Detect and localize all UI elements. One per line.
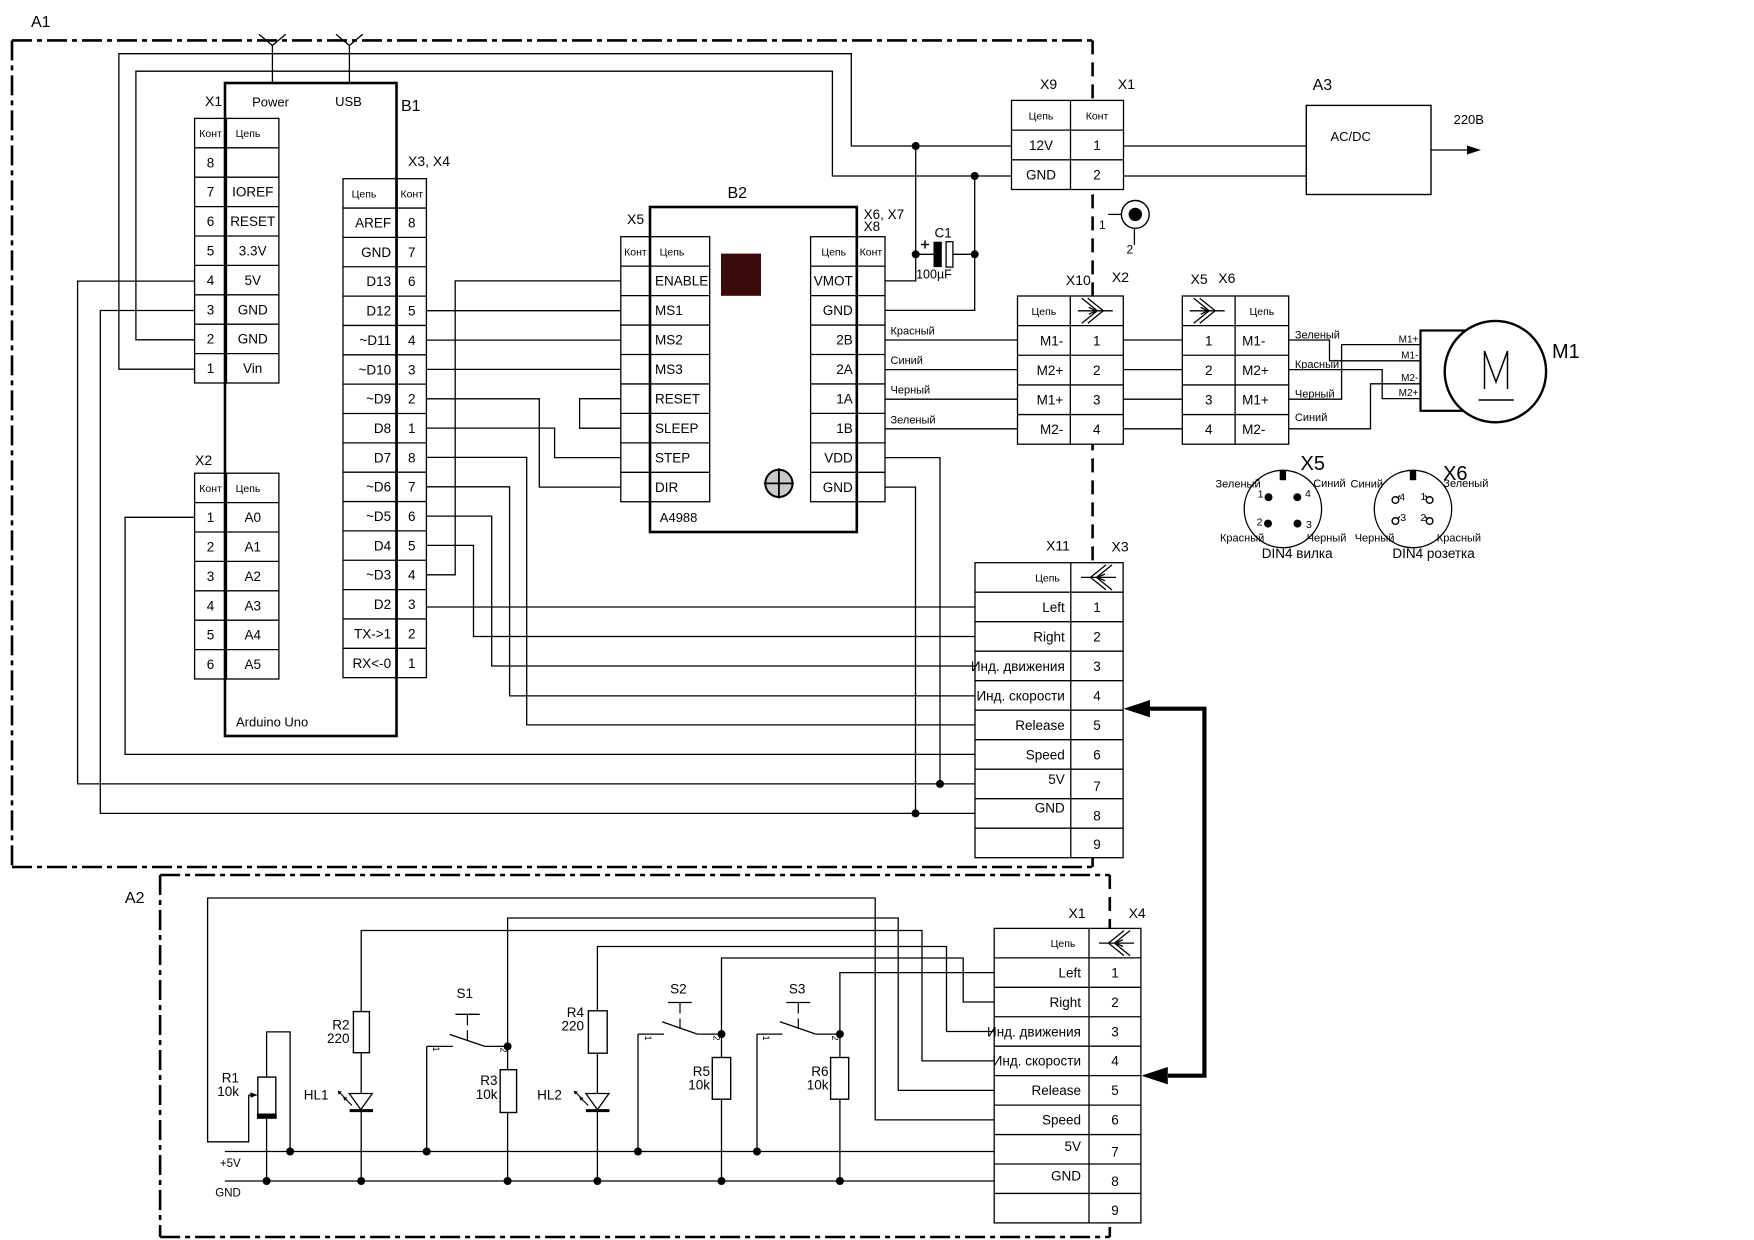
svg-text:6: 6 (207, 214, 215, 229)
svg-text:X4: X4 (1129, 905, 1146, 921)
svg-text:~D9: ~D9 (366, 392, 391, 407)
svg-text:Конт: Конт (199, 483, 222, 495)
svg-text:M2+: M2+ (1037, 363, 1064, 378)
resistor R5 (712, 1058, 730, 1100)
svg-text:Инд. движения: Инд. движения (971, 659, 1065, 674)
svg-text:D13: D13 (366, 274, 391, 289)
resistor R2 (353, 1012, 369, 1053)
svg-text:8: 8 (408, 216, 416, 231)
svg-text:X1: X1 (1069, 905, 1086, 921)
svg-text:7: 7 (207, 185, 215, 200)
svg-text:X2: X2 (1112, 269, 1129, 285)
svg-text:Черный: Черный (1295, 389, 1335, 401)
svg-text:7: 7 (1093, 779, 1101, 794)
svg-text:3: 3 (207, 569, 215, 584)
svg-text:1: 1 (1093, 600, 1101, 615)
svg-text:M1-: M1- (1040, 333, 1063, 348)
svg-text:3: 3 (408, 362, 416, 377)
svg-text:Зеленый: Зеленый (891, 415, 936, 427)
svg-text:VDD: VDD (824, 450, 853, 465)
svg-text:Синий: Синий (1313, 478, 1345, 490)
svg-text:9: 9 (1093, 837, 1101, 852)
svg-text:5: 5 (408, 538, 416, 553)
svg-text:1: 1 (1093, 138, 1101, 153)
svg-text:Цепь: Цепь (660, 246, 685, 258)
svg-text:Синий: Синий (1295, 412, 1327, 424)
antenna symbol Power external (271, 46, 273, 84)
wire X2 pin3 to X5 pin3 (1123, 398, 1182, 400)
svg-text:Инд. скорости: Инд. скорости (976, 688, 1064, 703)
svg-text:1: 1 (1093, 333, 1101, 348)
svg-text:2: 2 (207, 332, 215, 347)
svg-text:1: 1 (643, 1035, 653, 1040)
svg-text:Инд. движения: Инд. движения (987, 1024, 1081, 1039)
svg-text:Черный: Черный (1307, 533, 1347, 545)
svg-text:C1: C1 (935, 226, 952, 241)
svg-text:DIN4 розетка: DIN4 розетка (1392, 546, 1475, 561)
wire blue M2- to motor (1289, 384, 1421, 429)
svg-text:Цепь: Цепь (236, 128, 261, 140)
svg-text:GND: GND (1035, 801, 1065, 816)
svg-text:M1: M1 (1552, 341, 1580, 363)
wire X2 pin1 to X5 pin1 (1123, 339, 1182, 341)
svg-text:D2: D2 (374, 597, 391, 612)
wire R4 to HL2 (596, 1053, 598, 1093)
motor M1 (1421, 331, 1467, 411)
svg-text:4: 4 (1111, 1054, 1119, 1069)
wire Vin to X9 12V (119, 54, 1012, 370)
svg-text:5: 5 (1111, 1083, 1119, 1098)
svg-text:Цепь: Цепь (821, 246, 846, 258)
wire R1 top to +5V (267, 1032, 291, 1152)
svg-text:USB: USB (335, 94, 362, 109)
svg-text:AREF: AREF (355, 216, 391, 231)
svg-text:7: 7 (408, 245, 416, 260)
converter A3 AC/DC (1306, 105, 1431, 194)
svg-text:Цепь: Цепь (236, 483, 261, 495)
svg-text:Цепь: Цепь (1032, 306, 1057, 318)
svg-text:6: 6 (1093, 747, 1101, 762)
svg-text:A0: A0 (244, 510, 261, 525)
svg-text:Конт: Конт (624, 246, 647, 258)
svg-text:IOREF: IOREF (232, 185, 273, 200)
svg-text:X5: X5 (627, 211, 644, 227)
svg-text:M2+: M2+ (1242, 363, 1269, 378)
wire VMOT to 12V rail (885, 146, 916, 281)
svg-text:220В: 220В (1454, 112, 1484, 127)
wire S1 pin2 to R3 (507, 1046, 509, 1069)
wire S1 pin1 to +5V (426, 1046, 428, 1151)
wire S2 pin1 to +5V (637, 1034, 639, 1151)
svg-text:M1-: M1- (1242, 333, 1265, 348)
svg-text:1: 1 (207, 361, 215, 376)
svg-text:X3: X3 (1112, 538, 1129, 554)
svg-text:D12: D12 (366, 304, 391, 319)
svg-text:DIR: DIR (655, 480, 679, 495)
wire GND net to X11 pin8 (100, 311, 975, 814)
svg-text:Красный: Красный (891, 326, 935, 338)
svg-text:5: 5 (408, 304, 416, 319)
wire RESET-SLEEP jumper (580, 399, 621, 429)
svg-text:GND: GND (1051, 1169, 1081, 1184)
wire B2 GND to X9 GND rail (885, 176, 975, 310)
wire B2 GND bottom to GND net (885, 487, 916, 813)
svg-text:R3: R3 (480, 1073, 497, 1088)
wire VDD to 5V net (885, 458, 940, 784)
svg-text:2B: 2B (836, 333, 853, 348)
svg-text:10k: 10k (217, 1084, 239, 1099)
svg-text:A1: A1 (244, 540, 261, 555)
svg-text:RESET: RESET (230, 214, 275, 229)
+5V rail (225, 1151, 994, 1153)
wire D10 to MS3 (426, 368, 620, 370)
LED HL2 (586, 1094, 609, 1110)
svg-text:Инд. скорости: Инд. скорости (993, 1054, 1081, 1069)
svg-text:M1+: M1+ (1242, 393, 1269, 408)
svg-text:10k: 10k (688, 1078, 710, 1093)
wire S3 pin1 to +5V (756, 1034, 758, 1151)
svg-text:X10: X10 (1066, 272, 1091, 288)
svg-text:6: 6 (1111, 1113, 1119, 1128)
wire 5V net to X11 pin7 (78, 281, 975, 784)
svg-text:GND: GND (361, 245, 391, 260)
svg-text:S3: S3 (789, 982, 806, 997)
svg-text:8: 8 (1093, 809, 1101, 824)
svg-text:+5V: +5V (220, 1158, 241, 1170)
svg-text:X1: X1 (205, 93, 222, 109)
wire black M1+ to motor (1289, 345, 1421, 400)
svg-text:Зеленый: Зеленый (1443, 478, 1488, 490)
svg-text:A4988: A4988 (660, 510, 698, 525)
svg-text:Красный: Красный (1295, 359, 1339, 371)
svg-text:X6: X6 (1218, 270, 1235, 286)
svg-text:X5: X5 (1191, 271, 1208, 287)
svg-text:Arduino Uno: Arduino Uno (236, 715, 308, 730)
svg-text:2: 2 (1205, 363, 1213, 378)
svg-text:2: 2 (1093, 629, 1101, 644)
svg-text:X11: X11 (1046, 538, 1070, 554)
svg-text:X1: X1 (1118, 76, 1135, 92)
block A1 frame (12, 39, 1093, 42)
wire S2 pin2 to R5 (721, 1034, 723, 1057)
svg-text:6: 6 (207, 657, 215, 672)
wire X2 pin2 to X5 pin2 (1123, 369, 1182, 371)
svg-text:8: 8 (1111, 1174, 1119, 1189)
svg-text:X5: X5 (1301, 453, 1325, 475)
svg-text:Release: Release (1031, 1083, 1081, 1098)
svg-text:4: 4 (408, 333, 416, 348)
wire green M1- to motor (1289, 340, 1421, 361)
wire R6 to GND (839, 1099, 841, 1181)
svg-text:MS3: MS3 (655, 362, 683, 377)
svg-text:GND: GND (215, 1188, 241, 1200)
svg-text:S2: S2 (670, 982, 687, 997)
svg-text:2: 2 (1093, 363, 1101, 378)
svg-text:D7: D7 (374, 450, 391, 465)
svg-text:A2: A2 (244, 569, 261, 584)
wire D8 to STEP (426, 428, 620, 458)
svg-text:~D10: ~D10 (358, 362, 391, 377)
wire D6 to X11 pin4 (426, 487, 975, 696)
wire D11 to MS2 (426, 339, 620, 341)
wire D12 to MS1 (426, 310, 620, 312)
wire 2A to X10 M2+ (885, 369, 1018, 371)
svg-text:3: 3 (1306, 519, 1312, 531)
wire S2 pin2 to X1 Right (722, 958, 995, 1034)
svg-text:9: 9 (1111, 1203, 1119, 1218)
svg-text:3: 3 (207, 302, 215, 317)
svg-text:5V: 5V (1048, 772, 1065, 787)
svg-text:Черный: Черный (891, 385, 931, 397)
svg-text:~D11: ~D11 (359, 333, 391, 348)
svg-text:4: 4 (408, 568, 416, 583)
wire S3 pin2 to X1 Left (840, 973, 994, 1035)
wire D5 to X11 pin3 (426, 516, 975, 666)
svg-text:2: 2 (1257, 517, 1263, 529)
svg-text:Зеленый: Зеленый (1216, 479, 1261, 491)
svg-text:1: 1 (431, 1046, 441, 1051)
svg-text:2: 2 (1093, 167, 1101, 182)
svg-text:1: 1 (1420, 491, 1426, 503)
svg-text:2: 2 (408, 392, 416, 407)
svg-text:3: 3 (1111, 1024, 1119, 1039)
svg-text:TX->1: TX->1 (354, 626, 391, 641)
svg-text:2: 2 (1127, 243, 1134, 257)
capacitor C1 (934, 242, 942, 267)
svg-text:A1: A1 (31, 14, 51, 31)
GND rail (225, 1180, 994, 1182)
wire C1 right branch (953, 253, 975, 255)
svg-text:4: 4 (207, 273, 215, 288)
wire X2 pin4 to X5 pin4 (1123, 428, 1182, 430)
svg-text:4: 4 (1399, 492, 1405, 504)
svg-text:6: 6 (408, 509, 416, 524)
svg-text:GND: GND (238, 302, 268, 317)
wire S3 pin2 to R6 (839, 1034, 841, 1057)
svg-text:3.3V: 3.3V (239, 244, 267, 259)
svg-text:HL2: HL2 (537, 1088, 562, 1103)
wire D7 to X11 Release (426, 457, 975, 725)
svg-text:1A: 1A (836, 391, 853, 406)
wire 2B to X10 M1- (885, 339, 1018, 341)
svg-text:100µF: 100µF (916, 268, 952, 282)
potentiometer R1 (258, 1077, 276, 1114)
chip body dark square (721, 254, 761, 296)
svg-text:M1+: M1+ (1037, 393, 1064, 408)
wire R5 to GND (721, 1099, 723, 1181)
svg-text:VMOT: VMOT (814, 274, 853, 289)
svg-text:8: 8 (408, 450, 416, 465)
wire R3 to GND (507, 1113, 509, 1182)
svg-text:M2-: M2- (1242, 422, 1265, 437)
svg-text:S1: S1 (457, 986, 474, 1001)
svg-text:AC/DC: AC/DC (1331, 129, 1371, 144)
svg-text:SLEEP: SLEEP (655, 421, 699, 436)
svg-text:2: 2 (408, 626, 416, 641)
svg-text:ENABLE: ENABLE (655, 274, 708, 289)
svg-text:8: 8 (207, 155, 215, 170)
svg-text:1: 1 (207, 510, 215, 525)
svg-text:Красный: Красный (1437, 533, 1481, 545)
svg-text:1: 1 (1205, 333, 1213, 348)
svg-text:Left: Left (1058, 965, 1081, 980)
svg-text:Синий: Синий (1351, 479, 1383, 491)
svg-text:M2-: M2- (1040, 422, 1063, 437)
svg-text:A5: A5 (244, 657, 261, 672)
svg-text:A2: A2 (125, 890, 145, 907)
board B2 A4988 box (650, 207, 857, 532)
svg-text:Right: Right (1033, 629, 1065, 644)
HL1 emission arrows (340, 1093, 347, 1100)
svg-text:3: 3 (1093, 659, 1101, 674)
svg-text:12V: 12V (1029, 138, 1053, 153)
svg-text:X3, X4: X3, X4 (408, 153, 450, 169)
svg-text:B1: B1 (401, 98, 421, 115)
resistor R3 (500, 1070, 516, 1113)
svg-text:~D6: ~D6 (366, 480, 391, 495)
svg-text:STEP: STEP (655, 450, 690, 465)
svg-text:10k: 10k (476, 1087, 498, 1102)
svg-text:Конт: Конт (1086, 110, 1109, 122)
svg-text:7: 7 (408, 480, 416, 495)
wire D4 to X11 Right (426, 545, 975, 636)
svg-text:4: 4 (1305, 488, 1311, 500)
svg-text:7: 7 (1111, 1145, 1119, 1160)
svg-text:A4: A4 (244, 628, 261, 643)
svg-text:MS1: MS1 (655, 303, 683, 318)
svg-text:M2-: M2- (1401, 373, 1418, 384)
wire X1 pin2 to A3 (1124, 175, 1307, 177)
svg-text:4: 4 (1205, 422, 1213, 437)
svg-text:X2: X2 (195, 452, 212, 468)
svg-text:Vin: Vin (243, 361, 262, 376)
svg-text:D8: D8 (374, 421, 391, 436)
wire R2 top to X1 pin4 (361, 931, 994, 1061)
svg-text:Speed: Speed (1026, 747, 1065, 762)
svg-text:GND: GND (1026, 167, 1056, 182)
svg-text:Черный: Черный (1355, 533, 1395, 545)
wire X1 pin1 to A3 (1124, 145, 1307, 147)
resistor R4 (588, 1011, 607, 1053)
svg-text:10k: 10k (807, 1078, 829, 1093)
wire R4 top to X1 pin3 (597, 947, 994, 1032)
svg-text:D4: D4 (374, 538, 392, 553)
svg-text:A3: A3 (244, 598, 261, 613)
wire R2 to HL1 (360, 1053, 362, 1094)
LED HL1 (349, 1094, 372, 1110)
block A2 frame (160, 874, 1110, 877)
resistor R6 (831, 1058, 849, 1100)
svg-text:1B: 1B (836, 421, 853, 436)
wire D2 to X11 Left (426, 606, 975, 608)
svg-text:1: 1 (408, 656, 416, 671)
svg-text:Конт: Конт (400, 188, 423, 200)
svg-text:3: 3 (1205, 393, 1213, 408)
svg-text:M1-: M1- (1401, 351, 1418, 362)
wire 1A to X10 M1+ (885, 398, 1018, 400)
svg-text:5: 5 (207, 628, 215, 643)
svg-text:RX<-0: RX<-0 (352, 656, 391, 671)
svg-text:Power: Power (252, 95, 290, 110)
svg-text:~D5: ~D5 (366, 509, 391, 524)
svg-text:GND: GND (823, 303, 853, 318)
antenna symbol USB external (348, 46, 350, 84)
svg-text:4: 4 (207, 598, 215, 613)
wire 220V output arrow (1431, 149, 1470, 151)
svg-text:X8: X8 (864, 219, 881, 234)
svg-text:5V: 5V (1064, 1139, 1081, 1154)
svg-text:Синий: Синий (891, 355, 923, 367)
svg-text:1: 1 (1111, 965, 1119, 980)
svg-text:RESET: RESET (655, 391, 700, 406)
svg-text:Цепь: Цепь (1029, 110, 1054, 122)
svg-text:A3: A3 (1313, 77, 1333, 94)
svg-text:Конт: Конт (199, 128, 222, 140)
svg-text:Зеленый: Зеленый (1295, 330, 1340, 342)
wire D9 to DIR (426, 399, 620, 487)
wire A0 Speed to X11 pin6 (125, 517, 975, 754)
svg-text:GND: GND (238, 332, 268, 347)
svg-text:Цепь: Цепь (352, 188, 377, 200)
wire C1 left branch (916, 253, 934, 255)
svg-text:Цепь: Цепь (1035, 572, 1060, 584)
wire D3 to ENABLE (426, 281, 620, 575)
wire red M2+ to motor (1289, 370, 1421, 399)
svg-text:220: 220 (327, 1031, 350, 1046)
svg-text:2: 2 (1420, 512, 1426, 524)
svg-text:3: 3 (1093, 393, 1101, 408)
svg-text:GND: GND (823, 480, 853, 495)
svg-text:2: 2 (207, 540, 215, 555)
svg-text:Left: Left (1042, 600, 1065, 615)
svg-text:4: 4 (1093, 422, 1101, 437)
svg-text:X9: X9 (1040, 76, 1057, 92)
svg-text:220: 220 (561, 1019, 584, 1034)
svg-text:2: 2 (1111, 995, 1119, 1010)
svg-text:Speed: Speed (1042, 1113, 1081, 1128)
svg-text:1: 1 (408, 421, 416, 436)
svg-text:M1+: M1+ (1399, 335, 1419, 346)
wire GND2 to X9 GND (136, 71, 1012, 340)
svg-text:Красный: Красный (1220, 533, 1264, 545)
trimmer gray circle (765, 470, 792, 497)
board B1 Arduino Uno box (225, 83, 397, 736)
svg-text:Release: Release (1015, 718, 1065, 733)
svg-text:5V: 5V (244, 273, 261, 288)
svg-text:5: 5 (1093, 718, 1101, 733)
svg-text:Цепь: Цепь (1250, 306, 1275, 318)
svg-text:~D3: ~D3 (366, 568, 391, 583)
svg-text:B2: B2 (728, 185, 748, 202)
cable link X3 to X4 thick arrow (1148, 709, 1204, 1076)
svg-text:3: 3 (408, 597, 416, 612)
svg-text:MS2: MS2 (655, 333, 683, 348)
svg-text:Цепь: Цепь (1051, 938, 1076, 950)
svg-text:3: 3 (1400, 512, 1406, 524)
svg-text:2A: 2A (836, 362, 853, 377)
wire R1 bottom to GND (266, 1119, 268, 1181)
RCA jack symbol (1121, 201, 1149, 229)
wire S1 pin2 to X1 Release (508, 918, 995, 1090)
wire 1B to X10 M2- (885, 428, 1018, 430)
svg-text:Конт: Конт (860, 246, 883, 258)
svg-text:6: 6 (408, 274, 416, 289)
svg-text:4: 4 (1093, 688, 1101, 703)
svg-text:HL1: HL1 (304, 1088, 329, 1103)
wire R1 wiper to X1 Speed (208, 898, 995, 1142)
svg-text:1: 1 (761, 1035, 771, 1040)
svg-text:DIN4 вилка: DIN4 вилка (1262, 546, 1333, 561)
